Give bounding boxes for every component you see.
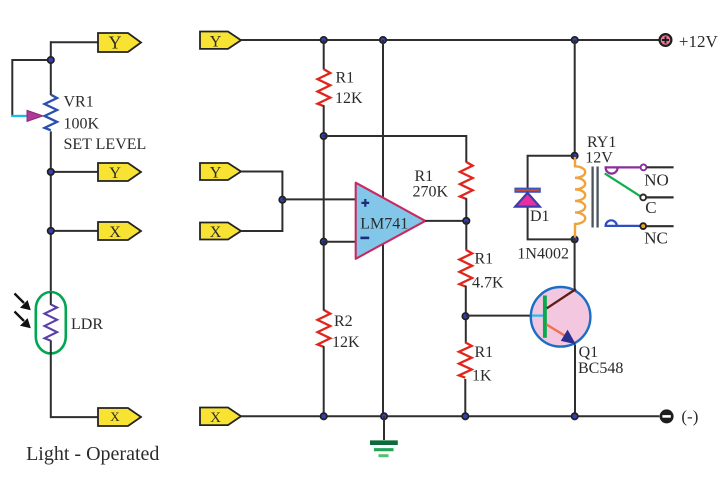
node bottom emitter: [572, 413, 578, 419]
wire left rail (VR1 to LDR): [50, 131, 52, 293]
node bottom 1K: [462, 413, 468, 419]
wire base junction to transistor: [466, 315, 533, 317]
svg-text:BC548: BC548: [578, 360, 623, 377]
svg-text:SET LEVEL: SET LEVEL: [64, 136, 147, 153]
svg-text:RY1: RY1: [587, 134, 616, 151]
wire cyan wiper segment: [11, 115, 27, 117]
connector flag Y (main top): [200, 32, 241, 51]
svg-text:12K: 12K: [332, 334, 360, 351]
wire to + input: [282, 198, 356, 200]
node top rail relay branch: [572, 37, 578, 43]
potentiometer VR1 (blue zigzag): [45, 95, 58, 131]
wire D1 branch: [528, 156, 575, 240]
connector flag X (mid-left): [98, 222, 141, 241]
svg-text:+12V: +12V: [679, 32, 719, 51]
wire left rail vertical (top to VR1): [50, 41, 52, 95]
wire Y input to junction: [241, 172, 282, 200]
LDR (green stadium with purple zigzag): [36, 292, 66, 354]
node top rail rail2: [380, 37, 386, 43]
wire rail1 middle segment: [323, 105, 325, 242]
node base junction: [462, 313, 468, 319]
svg-text:100K: 100K: [64, 116, 100, 133]
wire 1K bottom lead: [464, 379, 466, 416]
relay armature (green): [605, 173, 641, 196]
svg-text:Q1: Q1: [579, 344, 599, 361]
wire NO stub: [647, 166, 674, 168]
node mid Y junction: [48, 169, 54, 175]
svg-text:Light - Operated: Light - Operated: [26, 443, 159, 465]
svg-text:NC: NC: [644, 228, 668, 247]
node bottom R2: [321, 413, 327, 419]
wire 270K bottom lead: [465, 198, 467, 221]
node mid X junction: [48, 228, 54, 234]
resistor R1 270K: [460, 162, 473, 199]
wire feedback top: [324, 136, 467, 163]
wire 4.7K to 1K: [465, 286, 467, 344]
wire emitter to bottom rail: [574, 345, 576, 417]
svg-text:X: X: [109, 224, 121, 241]
terminal +12V: [660, 34, 672, 46]
svg-text:X: X: [210, 224, 222, 241]
relay contact C: [640, 195, 646, 201]
wire bottom rail: [241, 415, 659, 417]
node top rail R1: [321, 37, 327, 43]
svg-text:12K: 12K: [335, 90, 363, 107]
svg-text:R1: R1: [475, 344, 494, 361]
node input junction: [279, 197, 285, 203]
connector flag X (bottom): [200, 408, 241, 426]
op-amp U1 LM741: [356, 183, 426, 259]
ground: [370, 416, 398, 455]
transistor Q1: [531, 287, 591, 347]
svg-text:C: C: [645, 198, 656, 217]
node relay top junction: [571, 153, 577, 159]
wire NC stub: [646, 225, 673, 227]
wire left rail (LDR to bottom): [50, 353, 98, 418]
node feedback junction: [321, 133, 327, 139]
relay core bars: [593, 167, 598, 228]
svg-text:4.7K: 4.7K: [472, 275, 504, 292]
svg-text:X: X: [110, 409, 120, 424]
node relay bottom junction: [571, 236, 577, 242]
svg-text:12V: 12V: [585, 150, 613, 167]
svg-text:X: X: [210, 410, 221, 426]
svg-text:VR1: VR1: [64, 94, 94, 111]
connector flag Y (op-amp input): [200, 163, 241, 182]
wire output to 4.7K: [465, 221, 467, 250]
wire X input to junction: [241, 200, 282, 231]
svg-text:R1: R1: [415, 168, 434, 185]
svg-text:R1: R1: [475, 251, 494, 268]
wire rail1 bottom segment: [323, 241, 325, 417]
svg-text:R1: R1: [336, 70, 355, 87]
svg-text:NO: NO: [644, 171, 669, 190]
terminal (-): [660, 409, 674, 423]
svg-text:Y: Y: [109, 165, 121, 182]
svg-text:LDR: LDR: [71, 316, 103, 333]
svg-text:(-): (-): [681, 407, 698, 426]
resistor R1 12K: [318, 69, 331, 106]
LDR light arrow 1: [15, 294, 31, 311]
wire op-amp output: [425, 220, 466, 222]
wire to mid Y flag: [51, 171, 98, 173]
relay contact NC (blue): [605, 220, 647, 229]
node inverting input junction: [321, 239, 327, 245]
connector flag X (op-amp input): [200, 223, 241, 242]
LDR light arrow 2: [15, 312, 31, 329]
connector flag Y (mid-left): [98, 163, 141, 182]
wire top-left Y flag to left rail: [51, 41, 98, 43]
diode D1 1N4002: [514, 188, 540, 207]
node bottom ground: [381, 413, 387, 419]
wire relay branch vertical: [574, 40, 576, 156]
wiper arrow (magenta): [27, 110, 43, 121]
svg-text:LM741: LM741: [360, 215, 408, 232]
wire collector rail: [574, 239, 576, 289]
svg-text:D1: D1: [530, 208, 550, 225]
svg-text:Y: Y: [109, 33, 122, 53]
relay contact NO (purple): [605, 165, 647, 174]
svg-text:Y: Y: [210, 165, 222, 182]
wire C stub: [646, 196, 673, 198]
wire rail1 top segment: [323, 40, 325, 70]
node VR1 top junction: [48, 57, 54, 63]
svg-text:270K: 270K: [413, 184, 449, 201]
wire top rail: [241, 39, 660, 41]
resistor R1 1K: [459, 342, 472, 377]
wire to mid X flag: [51, 230, 98, 232]
svg-text:1K: 1K: [472, 368, 492, 385]
resistor R2 12K: [318, 310, 331, 347]
wire wiper loop: [12, 60, 51, 117]
resistor R1 4.7K: [459, 250, 472, 287]
svg-text:Y: Y: [210, 33, 222, 50]
connector flag Y (top-left): [98, 33, 141, 53]
node output junction: [463, 218, 469, 224]
svg-text:1N4002: 1N4002: [517, 246, 569, 263]
relay RY1 coil: [575, 157, 585, 238]
connector flag x (bottom-left): [98, 408, 141, 426]
wire rail2 behind op-amp: [382, 40, 384, 416]
svg-text:R2: R2: [334, 313, 353, 330]
wire to - input: [324, 241, 356, 243]
